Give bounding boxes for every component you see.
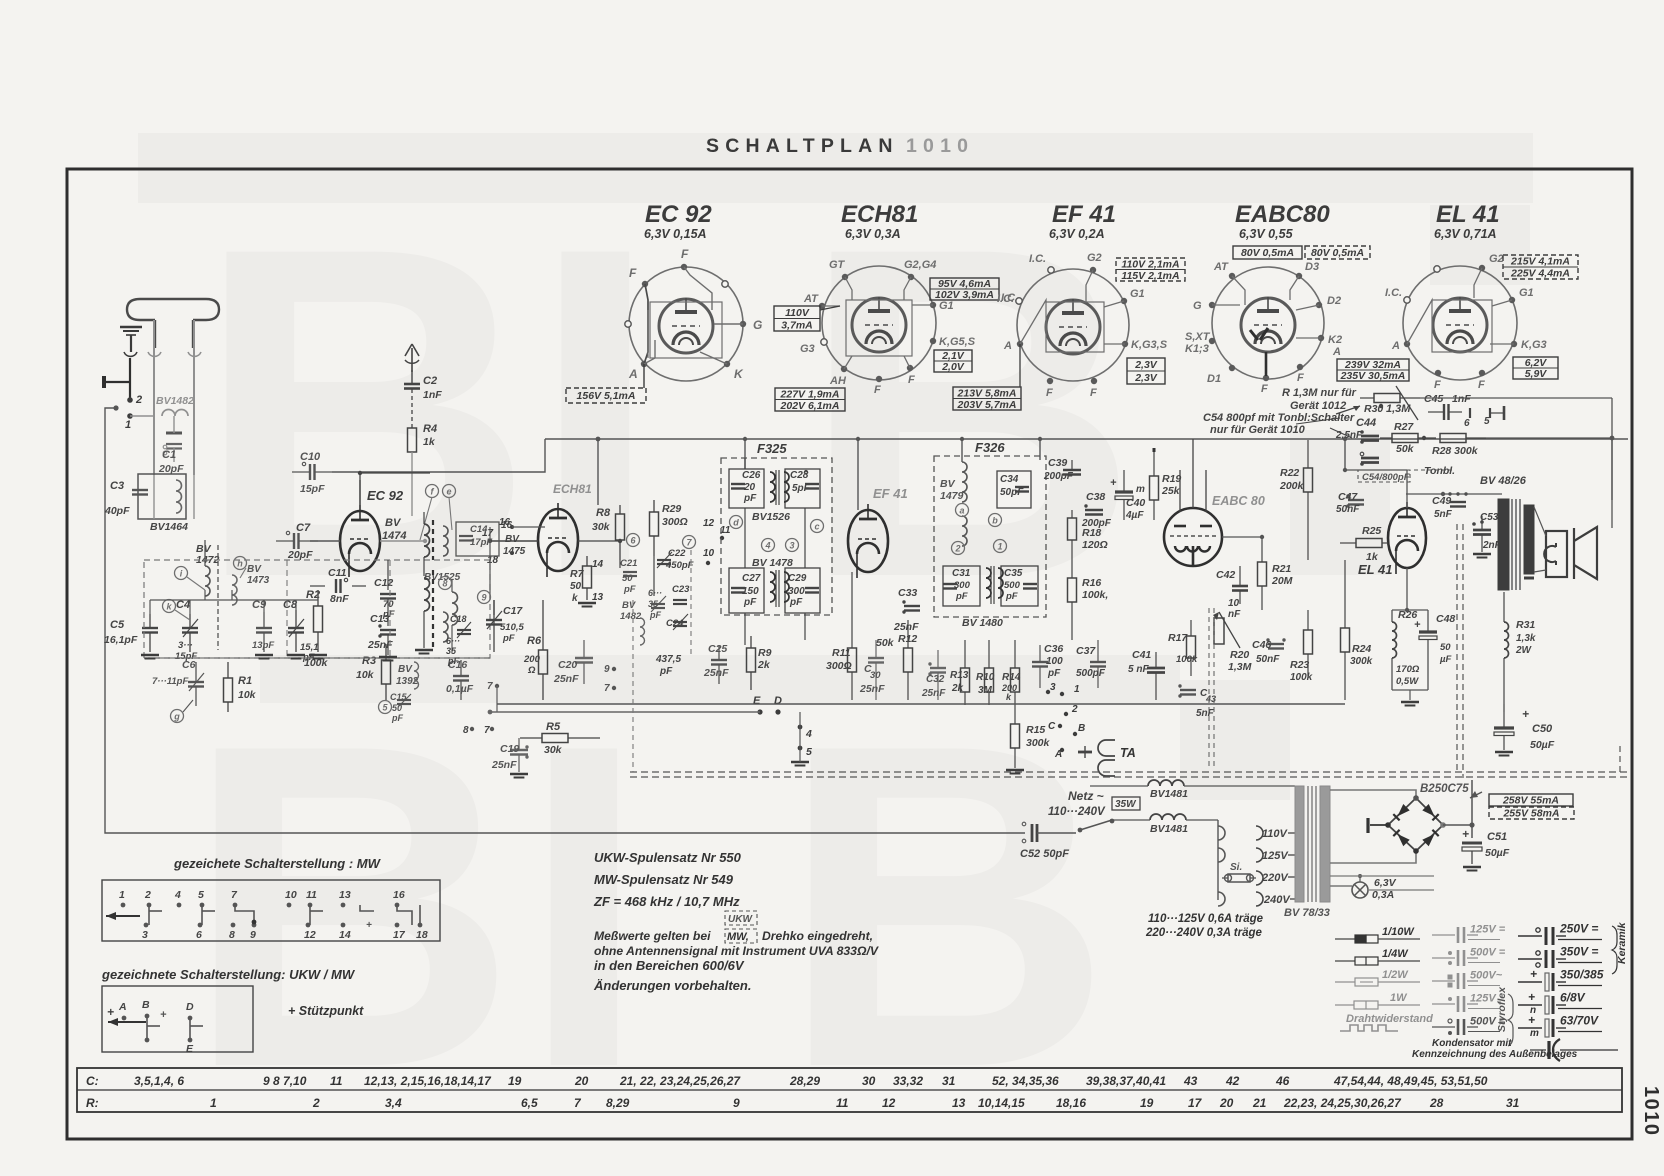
svg-text:UKW: UKW xyxy=(728,914,753,925)
svg-text:F: F xyxy=(874,384,881,396)
svg-text:25nF: 25nF xyxy=(491,759,517,771)
svg-text:G: G xyxy=(753,318,762,332)
svg-text:19: 19 xyxy=(1140,1096,1154,1110)
wire EABC outputs xyxy=(1222,536,1262,538)
switch point 6 xyxy=(627,534,640,547)
tube EL41 pin wires xyxy=(1474,268,1482,298)
MW switch box xyxy=(102,880,440,941)
svg-text:31: 31 xyxy=(942,1074,956,1088)
svg-text:9: 9 xyxy=(250,929,256,941)
svg-text:G3: G3 xyxy=(800,343,815,355)
resistor R2 100k xyxy=(314,606,323,632)
EABC80 box 80V solid xyxy=(1233,246,1302,259)
svg-text:125V: 125V xyxy=(1470,993,1497,1005)
svg-text:50: 50 xyxy=(392,703,402,713)
F326 coils lower xyxy=(986,568,991,598)
speaker wires xyxy=(1534,507,1546,536)
svg-text:+: + xyxy=(1522,707,1529,721)
svg-text:5pF: 5pF xyxy=(792,483,811,494)
cap C38 200pF xyxy=(1085,509,1103,512)
svg-text:b: b xyxy=(992,516,998,526)
svg-text:10k: 10k xyxy=(238,689,257,701)
svg-text:R7: R7 xyxy=(570,568,585,580)
terminals E D xyxy=(757,709,762,714)
svg-text:110V: 110V xyxy=(1262,828,1289,840)
MW switch links xyxy=(148,905,150,925)
svg-text:R25: R25 xyxy=(1362,525,1381,537)
input wire to C52 bus xyxy=(105,408,1025,833)
svg-text:13: 13 xyxy=(952,1096,966,1110)
cap C9 13pF xyxy=(256,627,272,629)
svg-text:50: 50 xyxy=(622,573,633,584)
F325 cap C26 20pF xyxy=(729,469,764,508)
svg-text:8: 8 xyxy=(463,725,469,736)
svg-text:BV1526: BV1526 xyxy=(752,511,790,523)
svg-text:1474: 1474 xyxy=(382,530,406,542)
svg-text:ZF = 468 kHz / 10,7 MHz: ZF = 468 kHz / 10,7 MHz xyxy=(593,894,740,909)
F326 cap C31 300pF xyxy=(943,566,980,606)
svg-text:50k: 50k xyxy=(1396,443,1415,455)
aerial terminal T xyxy=(102,376,106,388)
svg-text:25nF: 25nF xyxy=(921,688,946,699)
svg-text:C14: C14 xyxy=(470,524,488,535)
svg-text:C11: C11 xyxy=(328,567,347,579)
cap C41 5nF xyxy=(1147,667,1165,670)
svg-text:D: D xyxy=(774,695,782,707)
dashed AVC bus xyxy=(630,771,1628,773)
svg-text:B250C75: B250C75 xyxy=(1420,783,1469,795)
wire EC92 anode right xyxy=(380,540,425,542)
heater winding + lamp xyxy=(1330,885,1352,887)
svg-text:C2: C2 xyxy=(423,375,437,387)
legend capacitors styroflex xyxy=(1432,934,1455,936)
cap C1 20pF xyxy=(166,432,182,435)
dashed osc box right xyxy=(690,550,692,658)
tube EL41 pins xyxy=(1404,297,1410,303)
svg-text:39,38,37,40,41: 39,38,37,40,41 xyxy=(1086,1074,1166,1088)
svg-text:3: 3 xyxy=(142,929,148,941)
svg-text:2: 2 xyxy=(312,1096,320,1110)
svg-text:20: 20 xyxy=(1219,1096,1234,1110)
svg-text:EABC80: EABC80 xyxy=(1235,201,1330,228)
svg-text:K1;3: K1;3 xyxy=(1185,343,1209,355)
svg-text:5: 5 xyxy=(806,746,812,758)
svg-text:500V =: 500V = xyxy=(1470,947,1506,959)
svg-text:1: 1 xyxy=(119,889,125,901)
EABC80 box 239V/235V xyxy=(1337,359,1409,381)
svg-text:215V 4,1mA: 215V 4,1mA xyxy=(1510,256,1570,268)
svg-text:EF 41: EF 41 xyxy=(873,486,908,501)
tube EF41 pin wires xyxy=(1086,270,1093,302)
svg-text:5nF: 5nF xyxy=(1196,708,1215,719)
svg-text:20M: 20M xyxy=(1271,575,1293,587)
bottom rail left xyxy=(144,657,490,659)
svg-text:52, 34,35,36: 52, 34,35,36 xyxy=(992,1074,1059,1088)
svg-text:110V: 110V xyxy=(785,307,810,319)
resistor R10 3M xyxy=(985,668,994,692)
svg-text:C54/800pF: C54/800pF xyxy=(1362,472,1410,483)
switch points d 4 3 c xyxy=(730,516,743,529)
svg-text:R16: R16 xyxy=(1082,577,1101,589)
svg-text:C35: C35 xyxy=(1004,568,1023,579)
legend resistor 1/4W xyxy=(1335,960,1355,962)
svg-text:D2: D2 xyxy=(1327,295,1341,307)
svg-text:C45: C45 xyxy=(1424,393,1443,405)
svg-text:C17: C17 xyxy=(503,605,523,617)
mains switch xyxy=(1037,832,1076,834)
svg-text:6/8V: 6/8V xyxy=(1560,991,1586,1005)
svg-text:1: 1 xyxy=(125,419,131,431)
osc coil secondary xyxy=(443,526,448,556)
svg-text:21: 21 xyxy=(1252,1096,1267,1110)
svg-text:C: C xyxy=(1048,721,1056,732)
svg-text:100k: 100k xyxy=(1290,672,1313,683)
heptode ECH81 (circuit) xyxy=(538,509,578,571)
ECH81 box 110V 3,7mA xyxy=(774,306,820,331)
svg-text:21, 22, 23,24,25,26,27: 21, 22, 23,24,25,26,27 xyxy=(619,1074,741,1088)
svg-text:203V 5,7mA: 203V 5,7mA xyxy=(957,399,1017,411)
svg-text:Netz ~: Netz ~ xyxy=(1068,789,1104,803)
EF41 box 2,3V/2,3V xyxy=(1127,358,1165,384)
svg-text:240V: 240V xyxy=(1263,894,1291,906)
wire tuning cap tops xyxy=(149,600,151,614)
svg-text:35: 35 xyxy=(648,599,659,609)
svg-text:1,3k: 1,3k xyxy=(1516,633,1536,644)
choke BV1481 lower xyxy=(1150,814,1186,820)
F325 coils upper xyxy=(770,472,775,502)
svg-text:pF: pF xyxy=(743,597,757,608)
svg-text:C21: C21 xyxy=(620,558,637,569)
switch points f e xyxy=(426,485,439,498)
electrolytic C48 50uF xyxy=(1419,630,1437,633)
svg-text:1473: 1473 xyxy=(247,575,270,586)
svg-text:110V 2,1mA: 110V 2,1mA xyxy=(1121,258,1179,270)
svg-text:R22: R22 xyxy=(1280,467,1299,479)
svg-text:C31: C31 xyxy=(952,568,971,579)
svg-text:5: 5 xyxy=(198,889,204,901)
svg-text:F: F xyxy=(1261,383,1268,395)
EABC80 box 80V dashed xyxy=(1305,246,1370,259)
ECH81 box 2,1V/2,0V xyxy=(934,350,972,372)
svg-text:2: 2 xyxy=(954,544,960,554)
svg-text:C13: C13 xyxy=(370,613,389,625)
rail drop output transformer xyxy=(1611,439,1613,500)
svg-text:Si.: Si. xyxy=(1230,862,1242,873)
cap C23 xyxy=(673,599,687,601)
svg-text:9 8 7,10: 9 8 7,10 xyxy=(263,1074,307,1088)
pointer i xyxy=(187,577,205,590)
dashed tuning box xyxy=(144,560,490,658)
svg-text:R28 300k: R28 300k xyxy=(1432,445,1479,457)
cap C14 17pF box xyxy=(456,522,499,556)
svg-text:30: 30 xyxy=(870,670,881,681)
svg-text:C47: C47 xyxy=(1338,491,1358,503)
resistor R29 300ohm xyxy=(650,512,659,536)
svg-text:BV 48/26: BV 48/26 xyxy=(1480,475,1527,487)
cap C30 25nF xyxy=(868,657,884,659)
svg-text:C28: C28 xyxy=(790,470,809,481)
resistor R11 300ohm xyxy=(848,648,857,672)
svg-text:1: 1 xyxy=(997,542,1002,552)
svg-text:+: + xyxy=(1110,477,1117,489)
resistor R16 100k xyxy=(1068,578,1077,602)
svg-text:6: 6 xyxy=(1464,418,1470,429)
svg-text:R 1,3M nur für: R 1,3M nur für xyxy=(1282,387,1357,399)
resistor R23 100k xyxy=(1304,630,1313,654)
antenna dipole loop xyxy=(127,299,219,320)
svg-text:C15: C15 xyxy=(390,692,408,702)
svg-text:12: 12 xyxy=(882,1096,896,1110)
svg-text:C19: C19 xyxy=(500,743,519,755)
F326 cap C34 50pF xyxy=(997,471,1031,508)
cap C7 20pF xyxy=(293,533,295,549)
cap C19 25nF xyxy=(510,749,528,752)
svg-text:4: 4 xyxy=(764,541,770,551)
resistor R4 1k xyxy=(408,428,417,452)
svg-text:UKW-Spulensatz Nr 550: UKW-Spulensatz Nr 550 xyxy=(594,850,742,865)
tube ECH81 (socket diagram) xyxy=(822,266,936,380)
svg-text:16: 16 xyxy=(501,520,513,531)
svg-text:C46: C46 xyxy=(1252,639,1271,651)
svg-text:200k: 200k xyxy=(1279,480,1305,492)
svg-text:C51: C51 xyxy=(1487,831,1507,843)
cap C36 100pF xyxy=(1032,661,1048,663)
coil BV1525 xyxy=(452,592,458,625)
svg-text:C37: C37 xyxy=(1076,645,1096,657)
svg-text:a: a xyxy=(959,506,964,516)
cap C12 70pF xyxy=(380,593,396,595)
switch point k xyxy=(163,600,176,613)
svg-text:R14: R14 xyxy=(1002,672,1021,683)
svg-text:R29: R29 xyxy=(662,503,681,515)
svg-text:I.C.: I.C. xyxy=(1385,287,1402,299)
choke BV1481 upper xyxy=(1148,780,1184,786)
switch point 8 xyxy=(439,577,452,590)
svg-text:R18: R18 xyxy=(1082,527,1101,539)
ECH81 box 227V/202V xyxy=(775,388,845,411)
electrolytic C40 4uF xyxy=(1115,490,1133,493)
svg-text:pF: pF xyxy=(659,666,673,677)
svg-text:1479: 1479 xyxy=(940,490,964,502)
wire R26 C48 bottom xyxy=(1392,689,1428,691)
svg-text:50µF: 50µF xyxy=(1485,847,1510,859)
svg-text:A: A xyxy=(628,367,638,381)
svg-text:17pF: 17pF xyxy=(470,537,492,548)
wire C12 C13 chain xyxy=(387,560,389,590)
svg-text:7···11pF: 7···11pF xyxy=(152,676,188,687)
svg-text:C6: C6 xyxy=(182,659,196,671)
svg-text:F326: F326 xyxy=(975,440,1005,455)
svg-text:35W: 35W xyxy=(1115,799,1137,810)
mains transformer core BV78/33 xyxy=(1295,786,1304,902)
svg-text:R9: R9 xyxy=(758,647,772,659)
potentiometer R20 1,3M xyxy=(1214,618,1224,644)
right edge wire xyxy=(1619,746,1621,772)
svg-text:8: 8 xyxy=(442,579,447,589)
svg-text:C1: C1 xyxy=(162,449,176,461)
svg-text:25k: 25k xyxy=(1161,485,1181,497)
cap C39 200pF xyxy=(1063,469,1081,472)
rail drop ECH81 xyxy=(597,439,599,505)
resistor R18 120ohm xyxy=(1068,518,1077,540)
antenna coil box BV1464 xyxy=(138,474,186,519)
wire EL41 bottom xyxy=(1406,568,1408,610)
svg-text:A: A xyxy=(1003,340,1012,352)
IF transformer F325 box xyxy=(721,458,832,615)
svg-text:R31: R31 xyxy=(1516,619,1535,631)
svg-text:+: + xyxy=(160,1009,167,1021)
svg-text:F: F xyxy=(1478,379,1485,391)
pentode EL41 (circuit) xyxy=(1388,508,1426,568)
svg-text:13: 13 xyxy=(339,889,351,901)
bridge rectifier B250C75 xyxy=(1388,798,1443,851)
cap C2 1nF xyxy=(404,383,420,386)
svg-text:G1: G1 xyxy=(939,300,954,312)
top supply rail xyxy=(545,438,1628,440)
svg-text:pF: pF xyxy=(502,633,515,644)
svg-text:7: 7 xyxy=(487,681,493,692)
svg-text:MW-Spulensatz Nr 549: MW-Spulensatz Nr 549 xyxy=(594,872,734,887)
svg-text:EL 41: EL 41 xyxy=(1358,562,1392,577)
svg-text:A: A xyxy=(118,1001,127,1013)
svg-text:R10: R10 xyxy=(976,672,995,683)
svg-text:220···240V 0,3A träge: 220···240V 0,3A träge xyxy=(1145,927,1263,939)
svg-text:C20: C20 xyxy=(558,659,577,671)
svg-text:300k: 300k xyxy=(1026,737,1051,749)
svg-text:BV1481: BV1481 xyxy=(1150,823,1188,835)
svg-text:3···: 3··· xyxy=(178,640,193,651)
svg-text:5,9V: 5,9V xyxy=(1525,368,1548,380)
cap C37 500pF xyxy=(1090,661,1106,663)
svg-text:7: 7 xyxy=(484,725,490,736)
svg-text:pF: pF xyxy=(391,713,403,723)
svg-text:0,5W: 0,5W xyxy=(1396,676,1419,687)
F325 cap C29 300pF xyxy=(785,568,820,613)
UKW switch arrow xyxy=(108,1021,146,1023)
svg-text:B: B xyxy=(142,999,150,1011)
wire C7 to EC92 xyxy=(310,540,340,542)
svg-text:gezeichete Schalterstellung :: gezeichete Schalterstellung : MW xyxy=(173,856,382,871)
svg-text:258V 55mA: 258V 55mA xyxy=(1502,795,1559,807)
svg-text:I.C.: I.C. xyxy=(1029,253,1046,265)
svg-text:C39: C39 xyxy=(1048,457,1067,469)
dashed osc box left xyxy=(632,600,634,772)
svg-text:Meßwerte gelten bei: Meßwerte gelten bei xyxy=(594,929,711,943)
svg-text:510,5: 510,5 xyxy=(500,622,524,633)
tube EF41 pins xyxy=(1048,267,1054,273)
trimmer C6 7...11pF xyxy=(188,681,204,683)
ECH81 stage wires xyxy=(490,540,538,542)
cap C47 50nF xyxy=(1348,499,1364,501)
svg-text:100k: 100k xyxy=(1176,654,1198,665)
svg-text:C4: C4 xyxy=(176,599,190,611)
svg-text:A: A xyxy=(1391,340,1400,352)
svg-text:4: 4 xyxy=(805,728,812,740)
legend capacitors voltage xyxy=(1518,935,1542,937)
svg-text:25nF: 25nF xyxy=(553,673,579,685)
rail drop EL41 area xyxy=(1344,439,1346,470)
legend resistor 1/10W xyxy=(1335,938,1355,940)
cap C5 16,1pF xyxy=(142,627,158,629)
svg-text:2,3V: 2,3V xyxy=(1134,372,1158,384)
svg-text:17: 17 xyxy=(393,929,406,941)
svg-text:g: g xyxy=(173,712,180,722)
svg-text:K: K xyxy=(734,367,744,381)
tube EABC80 inner wires xyxy=(1232,276,1245,305)
svg-text:R:: R: xyxy=(86,1096,99,1110)
svg-text:500: 500 xyxy=(1004,580,1021,591)
svg-text:K,G3,S: K,G3,S xyxy=(1131,339,1168,351)
tube ECH81 pin wires xyxy=(845,277,852,300)
resistor R22 200k xyxy=(1304,468,1313,492)
svg-text:47,54,44, 48,49,45, 53,51,50: 47,54,44, 48,49,45, 53,51,50 xyxy=(1333,1074,1488,1088)
terminal 1 xyxy=(127,413,133,419)
svg-text:Änderungen vorbehalten.: Änderungen vorbehalten. xyxy=(593,978,751,993)
trimmer C18 6...35pF xyxy=(457,629,471,631)
svg-text:C26: C26 xyxy=(742,470,761,481)
svg-text:F: F xyxy=(1297,372,1304,384)
svg-text:1/2W: 1/2W xyxy=(1382,969,1409,981)
svg-text:1nF: 1nF xyxy=(1452,393,1471,405)
svg-text:35: 35 xyxy=(446,646,457,656)
resistor R12 50k xyxy=(904,648,913,672)
svg-text:AH: AH xyxy=(829,375,847,387)
cap C44 2,5nF xyxy=(1361,435,1379,438)
box 255V 58mA xyxy=(1489,807,1574,819)
svg-text:30: 30 xyxy=(862,1074,876,1088)
pointer k xyxy=(175,610,190,620)
svg-text:F325: F325 xyxy=(757,441,787,456)
switch point 5 xyxy=(379,701,392,714)
resistor R24 300k xyxy=(1341,628,1350,652)
cap C16 0,1uF xyxy=(453,675,469,677)
switch point g xyxy=(171,710,184,723)
svg-text:e: e xyxy=(446,487,451,497)
wire terminal1 xyxy=(130,415,154,417)
svg-text:1,3M: 1,3M xyxy=(1386,403,1411,415)
svg-text:42: 42 xyxy=(1225,1074,1240,1088)
legend resistor 1/2W xyxy=(1335,981,1355,983)
svg-text:C:: C: xyxy=(86,1074,99,1088)
svg-text:1392: 1392 xyxy=(396,676,419,687)
svg-text:I.C.: I.C. xyxy=(997,293,1014,305)
wire ECH81 17 lead xyxy=(489,527,491,570)
tube EC92 (socket diagram) xyxy=(629,267,743,381)
fuse Si xyxy=(1228,874,1250,882)
svg-text:C3: C3 xyxy=(110,480,124,492)
resistor R7 50k xyxy=(583,566,592,588)
svg-text:C53: C53 xyxy=(1480,512,1499,523)
F326 cap C35 500pF xyxy=(1001,566,1038,606)
svg-text:300: 300 xyxy=(788,586,805,597)
duodiode-triode EABC80 (circuit) xyxy=(1164,508,1222,566)
svg-text:BV 1480: BV 1480 xyxy=(962,617,1003,629)
osc top wire xyxy=(360,472,430,474)
svg-text:12: 12 xyxy=(304,929,316,941)
svg-text:C40: C40 xyxy=(1126,497,1145,509)
F325 coils lower xyxy=(770,572,775,602)
F325 cap C28 5pF xyxy=(785,469,820,508)
svg-text:3: 3 xyxy=(789,541,794,551)
cap C49 5nF xyxy=(1450,501,1466,503)
svg-text:20pF: 20pF xyxy=(158,463,184,475)
svg-text:3,4: 3,4 xyxy=(385,1096,402,1110)
svg-text:13pF: 13pF xyxy=(252,640,274,651)
svg-text:18,16: 18,16 xyxy=(1056,1096,1086,1110)
svg-text:17: 17 xyxy=(1188,1096,1203,1110)
svg-text:6,3V: 6,3V xyxy=(1374,877,1397,889)
svg-text:115V 2,1mA: 115V 2,1mA xyxy=(1121,270,1179,282)
